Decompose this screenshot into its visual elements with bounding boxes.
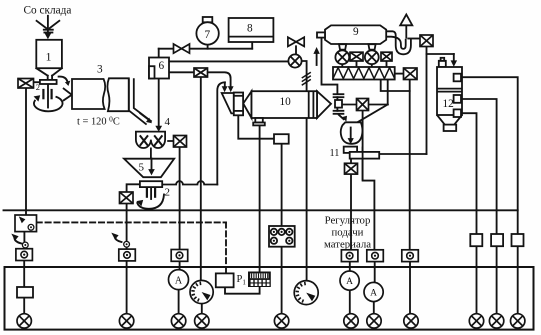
svg-text:10: 10 <box>280 96 292 108</box>
svg-text:A: A <box>346 277 353 287</box>
svg-text:Со склада: Со склада <box>24 4 72 16</box>
svg-text:5: 5 <box>139 162 145 174</box>
svg-text:A: A <box>175 275 183 286</box>
svg-text:6: 6 <box>159 60 165 72</box>
svg-text:2: 2 <box>36 82 40 92</box>
svg-text:11: 11 <box>330 148 340 159</box>
svg-text:Регулятор: Регулятор <box>325 215 371 227</box>
svg-text:4: 4 <box>165 116 171 128</box>
svg-text:8: 8 <box>247 23 253 35</box>
svg-text:t = 120 0С: t = 120 0С <box>77 115 120 128</box>
svg-text:12: 12 <box>443 98 455 110</box>
svg-text:3: 3 <box>97 64 103 76</box>
svg-text:1: 1 <box>46 50 52 64</box>
svg-text:2: 2 <box>165 187 171 199</box>
svg-text:9: 9 <box>353 26 359 38</box>
svg-text:подачи: подачи <box>332 227 364 239</box>
svg-text:A: A <box>370 288 377 298</box>
svg-text:материала: материала <box>324 239 371 251</box>
svg-text:7: 7 <box>205 29 211 41</box>
